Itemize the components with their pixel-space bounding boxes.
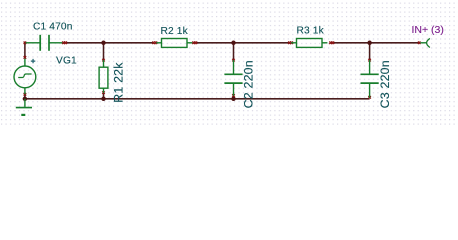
- svg-text:C3 220n: C3 220n: [378, 60, 392, 108]
- svg-text:R2 1k: R2 1k: [161, 26, 189, 37]
- svg-text:C2 220n: C2 220n: [242, 60, 256, 108]
- svg-text:C1 470n: C1 470n: [33, 21, 73, 32]
- svg-text:R1 22k: R1 22k: [112, 62, 126, 103]
- svg-text:IN+ (3): IN+ (3): [412, 24, 444, 36]
- svg-text:VG1: VG1: [56, 55, 77, 66]
- svg-text:R3 1k: R3 1k: [297, 25, 325, 36]
